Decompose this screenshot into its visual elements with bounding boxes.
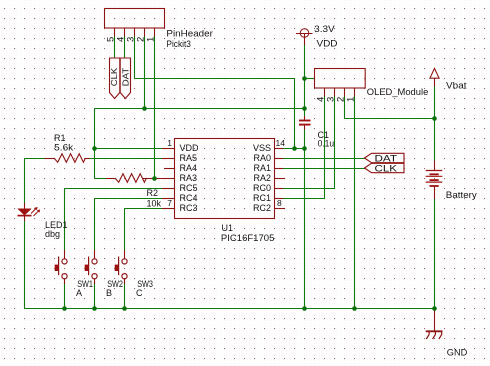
junction VDD to U1 pin1 — [92, 146, 97, 151]
junction VDD horizontal end — [302, 106, 307, 111]
svg-text:R1: R1 — [54, 133, 66, 143]
label Vbat — [446, 81, 467, 91]
svg-text:VSS: VSS — [253, 143, 271, 153]
wire: VDD branch to U1 pin1 — [95, 148, 163, 150]
IC U1 PIC16F1705 — [162, 139, 285, 219]
svg-text:7: 7 — [167, 198, 172, 208]
wire: RA0 to DAT label — [283, 158, 365, 160]
U1 left pin names — [180, 143, 200, 213]
wire: C1 bottom to VSS line — [304, 130, 306, 149]
wire: RC0 to OLED pin3 — [283, 97, 335, 189]
svg-text:PinHeader: PinHeader — [166, 29, 213, 39]
pin number 1 (U1 VDD) — [167, 138, 172, 148]
junction SW1 at bus — [62, 306, 67, 311]
svg-text:Pickit3: Pickit3 — [166, 39, 191, 49]
label GND — [447, 348, 468, 358]
pin number 2 (header) — [135, 37, 146, 42]
svg-text:RA5: RA5 — [180, 153, 198, 163]
svg-text:RA2: RA2 — [253, 173, 271, 183]
svg-text:5.6k: 5.6k — [54, 143, 74, 153]
LED LED1 — [18, 203, 41, 221]
wire: VSS ground vertical to bus — [304, 149, 306, 309]
label R2 10k — [147, 188, 162, 209]
svg-text:RC3: RC3 — [180, 203, 198, 213]
wire: R1 left to LED vertical — [25, 158, 45, 160]
junction C1 at VSS — [302, 146, 307, 151]
svg-text:RC4: RC4 — [180, 193, 198, 203]
wire: ground net vertical x294.5 — [294, 79, 296, 149]
battery BAT1 — [426, 161, 443, 200]
junction battery / GND at bus — [432, 306, 437, 311]
label SW2 B — [106, 279, 123, 298]
svg-text:PIC16F1705: PIC16F1705 — [221, 233, 275, 243]
resistor R2 — [106, 174, 155, 183]
wire: VSS line — [283, 148, 305, 150]
wire: VDD to OLED module — [305, 78, 315, 80]
svg-text:1: 1 — [345, 97, 356, 102]
label SW1 A — [76, 279, 93, 298]
net label CLK (horizontal) — [365, 163, 405, 174]
svg-text:A: A — [76, 288, 82, 298]
wire: SW2 bottom to bus — [94, 282, 96, 309]
junction R2 / MCLR — [152, 176, 157, 181]
wire: ground net horizontal y78 — [135, 78, 295, 80]
pin number 2 (OLED) — [335, 97, 346, 102]
wire: 3.3V supply vertical — [304, 45, 306, 116]
svg-text:VDD: VDD — [180, 143, 200, 153]
svg-text:OLED_Module: OLED_Module — [367, 87, 429, 97]
wire: R1 right to RA5 — [90, 158, 163, 160]
pin number 1 (header) — [145, 37, 156, 42]
wire: header pin5 to CLK label — [114, 37, 116, 59]
wire: LED anode vertical — [24, 159, 26, 204]
switch SW1 — [55, 250, 67, 284]
wire: OLED pin1 to ground bus — [354, 97, 356, 309]
pin number 4 (header) — [115, 37, 126, 42]
wire: SW3 to RC3 — [125, 209, 163, 251]
connector J1 PinHeader Pickit3 — [105, 9, 165, 37]
pin number 14 (U1 VSS) — [276, 138, 286, 148]
wire: VDD horizontal y108 — [95, 108, 305, 110]
net label DAT (horizontal) — [365, 153, 405, 164]
svg-text:RC5: RC5 — [180, 183, 198, 193]
svg-text:CLK: CLK — [375, 164, 398, 175]
label 3.3V — [314, 24, 335, 34]
wire: battery minus to ground bus — [434, 199, 436, 309]
svg-text:RA3: RA3 — [180, 173, 198, 183]
label VDD — [317, 39, 339, 49]
wire: RC1 to OLED pin4 — [283, 97, 325, 199]
switch SW3 — [115, 250, 127, 284]
svg-text:RA1: RA1 — [253, 163, 271, 173]
svg-text:RC0: RC0 — [253, 183, 271, 193]
wire: OLED pin2 to Vbat — [345, 97, 435, 119]
wire: RA1 to CLK label — [283, 168, 365, 170]
svg-text:Battery: Battery — [446, 190, 478, 200]
junction at header pin2 / VDD — [142, 106, 147, 111]
wire: ground bus — [25, 308, 435, 310]
svg-text:RA0: RA0 — [253, 153, 271, 163]
svg-text:0.1u: 0.1u — [318, 139, 335, 149]
pin number 8 (U1 RC2) — [277, 198, 282, 208]
svg-text:14: 14 — [276, 138, 286, 148]
svg-text:RA4: RA4 — [180, 163, 198, 173]
svg-text:10k: 10k — [147, 199, 162, 209]
junction SW3 at bus — [122, 306, 127, 311]
svg-text:DAT: DAT — [120, 68, 130, 87]
svg-text:C: C — [136, 288, 143, 298]
ground symbol GND — [426, 309, 443, 340]
power symbol Vbat — [430, 68, 439, 86]
label U1 PIC16F1705 — [221, 223, 275, 243]
capacitor C1 — [299, 116, 311, 130]
resistor R1 — [45, 154, 90, 163]
svg-text:U1: U1 — [222, 223, 234, 233]
wire: VDD corner to R2 — [95, 178, 107, 180]
svg-text:RC2: RC2 — [253, 203, 271, 213]
wire: SW1 to RC5 — [65, 189, 163, 251]
label C1 0.1u — [318, 130, 335, 149]
svg-text:1: 1 — [145, 37, 156, 42]
junction ground vertical at VSS — [292, 146, 297, 151]
switch SW2 — [85, 250, 97, 284]
label LED1 dbg — [45, 220, 68, 239]
svg-text:VDD: VDD — [317, 39, 339, 49]
label PinHeader Pickit3 — [166, 29, 213, 50]
wire: header pin4 to DAT label — [124, 37, 126, 59]
junction VDD to OLED branch — [302, 76, 307, 81]
pin number 1 (OLED) — [345, 97, 356, 102]
svg-text:1: 1 — [167, 138, 172, 148]
wire: R2 output to RA3 — [143, 178, 162, 180]
wire: Vbat vertical to battery — [434, 87, 436, 161]
label SW3 C — [136, 279, 153, 298]
label OLED_Module — [367, 87, 429, 97]
svg-text:3.3V: 3.3V — [314, 24, 335, 34]
svg-text:CLK: CLK — [109, 67, 119, 86]
svg-text:B: B — [106, 288, 112, 298]
wire: SW1 bottom to bus — [64, 282, 66, 309]
junction Vbat line — [432, 116, 437, 121]
pin number 3 (OLED) — [325, 97, 336, 102]
wire: header pin2 VDD vertical — [144, 37, 146, 109]
pin number 7 (U1 RC3) — [167, 198, 172, 208]
svg-text:8: 8 — [277, 198, 282, 208]
svg-text:dbg: dbg — [45, 229, 60, 239]
svg-text:R2: R2 — [147, 188, 159, 198]
pin number 4 (OLED) — [315, 97, 326, 102]
junction OLED pin1 at bus — [352, 306, 357, 311]
U1 right pin names — [253, 143, 271, 213]
label Battery — [446, 190, 478, 200]
wire: header pin3 ground net vertical — [134, 37, 136, 79]
junction VSS vertical at bus — [302, 306, 307, 311]
net label DAT (vertical) — [120, 58, 130, 99]
wire: VDD vertical x94.5 — [94, 109, 96, 179]
label R1 5.6k — [54, 133, 74, 153]
net label CLK (vertical) — [109, 58, 120, 99]
wire: LED cathode to ground bus — [24, 221, 26, 309]
power symbol 3.3V VDD — [296, 29, 313, 45]
wire: SW3 bottom to bus — [124, 282, 126, 309]
svg-text:GND: GND — [447, 348, 468, 358]
junction SW2 at bus — [92, 306, 97, 311]
pin number 3 (header) — [125, 37, 136, 42]
pin number 5 (header) — [105, 37, 116, 42]
wire: SW2 to RC4 — [95, 199, 163, 251]
svg-text:RC1: RC1 — [253, 193, 271, 203]
connector OLED_Module — [315, 69, 366, 97]
wire: header pin1 MCLR vertical — [154, 37, 156, 179]
svg-text:Vbat: Vbat — [446, 81, 467, 91]
